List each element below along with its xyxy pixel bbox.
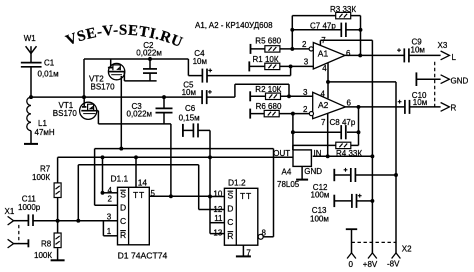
- svg-text:14: 14: [138, 178, 148, 188]
- svg-text:R8: R8: [41, 239, 52, 248]
- svg-text:GND: GND: [451, 76, 469, 85]
- svg-text:TT: TT: [133, 190, 145, 200]
- svg-text:A1, A2 - КР140УД608: A1, A2 - КР140УД608: [195, 21, 273, 30]
- svg-text:4: 4: [322, 64, 327, 73]
- svg-text:+8V: +8V: [363, 260, 378, 269]
- svg-text:W1: W1: [24, 34, 37, 43]
- svg-text:0,022м: 0,022м: [136, 48, 162, 57]
- svg-text:100К: 100К: [32, 173, 50, 182]
- svg-text:3: 3: [107, 212, 112, 221]
- svg-text:1: 1: [107, 227, 112, 236]
- svg-text:1000p: 1000p: [18, 203, 41, 212]
- svg-text:10м: 10м: [413, 98, 427, 107]
- svg-text:100м: 100м: [311, 191, 330, 200]
- svg-text:IN: IN: [314, 149, 322, 158]
- svg-text:L1: L1: [38, 119, 47, 128]
- svg-text:BS170: BS170: [91, 83, 116, 92]
- svg-text:7: 7: [321, 36, 326, 45]
- svg-text:R: R: [227, 231, 233, 241]
- svg-text:D: D: [120, 203, 126, 213]
- svg-text:C1: C1: [44, 58, 55, 67]
- svg-text:0: 0: [349, 260, 354, 269]
- svg-text:C11: C11: [22, 195, 37, 204]
- svg-text:2: 2: [303, 105, 308, 114]
- svg-text:11: 11: [214, 214, 223, 223]
- svg-text:C6: C6: [185, 104, 196, 113]
- svg-text:0,01м: 0,01м: [38, 70, 59, 79]
- svg-text:R: R: [120, 230, 126, 240]
- svg-text:TT: TT: [240, 191, 252, 201]
- svg-text:R5 680: R5 680: [255, 37, 281, 46]
- svg-text:C8 47p: C8 47p: [330, 118, 356, 127]
- svg-text:A4: A4: [282, 168, 292, 177]
- svg-text:7: 7: [321, 118, 326, 127]
- svg-text:R3 33К: R3 33К: [330, 5, 356, 14]
- svg-text:S: S: [228, 191, 234, 201]
- svg-text:47мН: 47мН: [35, 128, 55, 137]
- svg-text:X3: X3: [438, 41, 448, 50]
- svg-text:L: L: [452, 53, 457, 62]
- svg-text:2: 2: [302, 40, 307, 49]
- svg-text:-8V: -8V: [387, 260, 400, 269]
- svg-text:R6 680: R6 680: [256, 102, 282, 111]
- svg-text:R4 33К: R4 33К: [336, 149, 362, 158]
- svg-text:C: C: [227, 217, 233, 227]
- svg-text:D1.1: D1.1: [111, 174, 129, 184]
- svg-text:10м: 10м: [411, 45, 425, 54]
- svg-text:12: 12: [213, 205, 222, 214]
- svg-text:4: 4: [321, 89, 326, 98]
- svg-text:R: R: [451, 103, 457, 112]
- svg-text:C7 47р: C7 47р: [310, 22, 336, 31]
- svg-text:100м: 100м: [310, 214, 329, 223]
- svg-text:S: S: [120, 190, 126, 200]
- svg-text:0,15м: 0,15м: [179, 114, 200, 123]
- svg-text:BS170: BS170: [53, 109, 78, 118]
- svg-text:8: 8: [262, 228, 267, 237]
- svg-text:A2: A2: [318, 100, 329, 110]
- svg-text:10м: 10м: [193, 57, 207, 66]
- svg-text:78L05: 78L05: [277, 180, 300, 189]
- svg-text:5: 5: [151, 189, 156, 198]
- svg-text:GND: GND: [304, 167, 322, 176]
- svg-text:100К: 100К: [34, 251, 52, 260]
- svg-text:6: 6: [346, 49, 351, 58]
- svg-text:R2 10К: R2 10К: [255, 85, 281, 94]
- svg-text:R1 10К: R1 10К: [253, 55, 279, 64]
- svg-text:3: 3: [303, 88, 308, 97]
- svg-text:D1.2: D1.2: [228, 178, 246, 188]
- svg-text:X2: X2: [402, 245, 412, 254]
- svg-text:2: 2: [108, 194, 113, 203]
- svg-text:10м: 10м: [182, 88, 196, 97]
- svg-text:X1: X1: [5, 207, 15, 216]
- svg-text:0,022м: 0,022м: [127, 110, 153, 119]
- svg-text:A1: A1: [318, 48, 329, 58]
- svg-text:C: C: [120, 216, 126, 226]
- svg-text:D: D: [227, 204, 233, 214]
- svg-text:13: 13: [213, 229, 222, 238]
- svg-text:3: 3: [304, 58, 309, 67]
- svg-text:D1 74ACT74: D1 74ACT74: [118, 250, 168, 260]
- svg-text:R7: R7: [40, 164, 51, 173]
- svg-text:6: 6: [347, 98, 352, 107]
- svg-text:OUT: OUT: [273, 149, 290, 158]
- svg-text:7: 7: [246, 249, 251, 258]
- svg-text:10: 10: [213, 190, 222, 199]
